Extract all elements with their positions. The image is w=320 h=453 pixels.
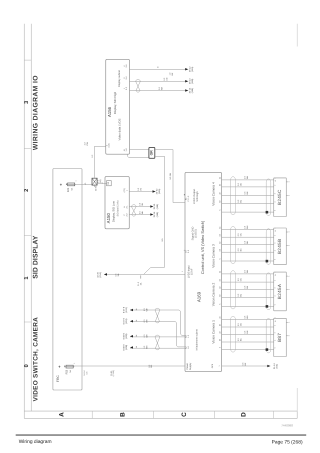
wire label	[137, 187, 142, 191]
twisted pair cameras 1	[155, 308, 160, 323]
svg-text:A156: A156	[107, 106, 112, 117]
svg-text:(11B): (11B)	[156, 204, 159, 209]
pin stub A7	[184, 249, 185, 251]
svg-text:A5: A5	[218, 316, 221, 318]
pin stub2 B87	[286, 335, 288, 337]
wire tick	[135, 346, 137, 348]
label 8:68-8	[123, 332, 129, 339]
svg-text:FRC: FRC	[56, 375, 60, 383]
svg-text:1: 1	[287, 181, 290, 182]
svg-text:A8: A8	[218, 192, 221, 194]
wire A169 to B245A pin1	[222, 273, 274, 275]
frame right border bottom segment	[296, 388, 298, 411]
svg-text:1: 1	[287, 232, 290, 233]
svg-text:Vision Camera 3: Vision Camera 3	[211, 244, 215, 268]
svg-text:A150: A150	[106, 213, 111, 224]
svg-text:C1 1-2: C1 1-2	[187, 195, 190, 202]
wire label 0.5 GN	[163, 77, 168, 81]
shield ground square B245B	[266, 260, 269, 263]
wire A169 to B245B pin1	[222, 229, 274, 231]
wire A150 pinC to arrow	[129, 214, 153, 216]
wire camera L3	[130, 336, 185, 338]
svg-text:WH: WH	[246, 269, 249, 273]
wire A150 pin1 to arrow	[129, 191, 155, 193]
wire A169 to B245C pin2	[222, 186, 274, 188]
svg-text:A: A	[58, 412, 65, 417]
box A169	[185, 172, 222, 371]
svg-text:A8: A8	[218, 286, 221, 288]
pin stub B245A	[286, 275, 288, 277]
wire label 0.5 RD	[148, 364, 153, 368]
svg-text:Control unit, VS (Video Switch: Control unit, VS (Video Switch)	[200, 220, 205, 274]
wire A169 to B245B pin2	[222, 236, 274, 238]
pin label infotainment2	[185, 345, 190, 349]
wire A169 to B245A pin2	[222, 281, 274, 283]
wire A156 pin41 to OR	[130, 148, 149, 150]
svg-text:30-80: 30-80	[95, 185, 98, 191]
wire labels B245C	[244, 175, 249, 179]
svg-text:2: 2	[287, 245, 290, 246]
logic box OR	[149, 147, 155, 158]
connector box 52 in A150	[107, 181, 112, 186]
wire F53 to A169	[74, 365, 185, 367]
wire tick	[135, 320, 137, 322]
svg-text:WIRING DIAGRAM IO: WIRING DIAGRAM IO	[33, 75, 40, 150]
wire tick	[135, 309, 137, 311]
wire camera L1	[130, 310, 185, 336]
svg-text:32-20: 32-20	[97, 271, 100, 277]
label at connector	[97, 179, 102, 183]
svg-text:0.5 GN: 0.5 GN	[169, 173, 172, 180]
wire label below	[169, 72, 174, 76]
svg-text:B245B: B245B	[277, 239, 282, 255]
svg-text:VO: VO	[139, 188, 142, 191]
pin label 4 (C2)	[105, 143, 110, 147]
frame bottom outer line	[24, 417, 297, 419]
cable shield B245C	[231, 177, 236, 215]
svg-text:WH: WH	[246, 175, 249, 179]
svg-text:(LVDS): (LVDS)	[195, 229, 198, 237]
svg-text:35-14: 35-14	[189, 87, 192, 93]
wire label	[139, 210, 144, 214]
svg-text:Video data LVDS: Video data LVDS	[118, 118, 122, 140]
wire labels B87 3	[244, 330, 249, 334]
svg-text:(11B): (11B)	[156, 212, 159, 217]
svg-text:(G4): (G4)	[276, 364, 279, 369]
svg-text:35-13: 35-13	[189, 78, 192, 84]
wire A169 to B87 pin1	[222, 319, 274, 321]
svg-text:35-15: 35-15	[153, 203, 156, 209]
svg-text:PW: PW	[86, 142, 89, 145]
arrow to 31-12	[185, 68, 188, 71]
label 32-20	[97, 271, 103, 277]
wire A150 pinA to arrow	[129, 206, 153, 208]
wire label 0.5 BK	[242, 362, 247, 366]
svg-text:WH: WH	[246, 315, 249, 319]
label Signal GND	[192, 227, 198, 241]
wire A169 to B245A pin5	[222, 305, 274, 307]
wire connector up to A156	[95, 146, 106, 178]
wire A169 to B87 pin4	[222, 341, 274, 343]
svg-text:WH: WH	[146, 334, 149, 338]
shield ground square B87	[266, 348, 269, 351]
svg-text:Infotainment subnet: Infotainment subnet	[196, 329, 199, 350]
svg-text:(12A): (12A)	[125, 307, 128, 313]
label 35-13	[189, 78, 195, 84]
wire label	[110, 370, 115, 377]
wire A169 to B245C pin4	[222, 203, 274, 205]
pin stub2 B245B	[286, 245, 288, 247]
frame tick	[214, 411, 216, 418]
wire A169 to B245B pin5	[222, 260, 274, 262]
svg-text:Display, SID Low: Display, SID Low	[111, 200, 115, 222]
arrow camera wire 1	[130, 309, 133, 312]
wire A169 to B87 pin5	[222, 349, 274, 351]
svg-text:31-14: 31-14	[273, 363, 276, 369]
svg-text:1: 1	[181, 271, 184, 272]
pin stub B87	[286, 321, 288, 323]
frame tick	[24, 148, 31, 150]
cable shield 2 B245A	[266, 273, 271, 310]
wire A156 bottom pin to OR	[128, 154, 149, 157]
svg-text:WH: WH	[146, 345, 149, 349]
svg-text:30-52: 30-52	[155, 188, 158, 194]
shield ground square B245C	[266, 211, 269, 214]
svg-text:(12B): (12B)	[125, 345, 128, 351]
pin label C	[123, 213, 128, 217]
pin label 2	[123, 76, 128, 80]
wire A169 to B245A pin3	[222, 289, 274, 291]
frame bottom inner line	[24, 410, 297, 412]
svg-text:35-12: 35-12	[189, 66, 192, 72]
svg-text:2: 2	[287, 335, 290, 336]
wire labels B245A	[244, 269, 249, 273]
arrow to 35-13	[185, 80, 188, 83]
box A156	[106, 59, 130, 154]
label 31-12	[189, 66, 195, 72]
wire A169 to B245C pin1	[222, 179, 274, 181]
svg-text:B8: B8	[218, 294, 221, 296]
cable shield 2 B245B	[266, 229, 271, 265]
wire tick	[135, 335, 137, 337]
svg-text:A169: A169	[196, 291, 201, 302]
pin label A	[123, 205, 128, 209]
svg-text:Vision Camera 4: Vision Camera 4	[211, 182, 215, 206]
wire A156 pin1 to arrow	[130, 90, 189, 92]
svg-text:SID High: SID High	[196, 191, 199, 202]
pin tick	[184, 194, 185, 196]
wire connector to A150 C2	[97, 182, 106, 184]
svg-text:8:68-8: 8:68-8	[123, 332, 126, 339]
svg-text:Supply: Supply	[189, 362, 192, 370]
wire labels B245A 2	[237, 277, 242, 281]
svg-text:(11B): (11B)	[191, 78, 194, 83]
svg-text:(11A): (11A)	[191, 66, 194, 71]
svg-text:Page 75 (268): Page 75 (268)	[272, 439, 303, 445]
svg-text:B87: B87	[277, 333, 282, 342]
svg-text:Gnd: Gnd	[211, 363, 214, 368]
svg-text:B5: B5	[218, 324, 221, 326]
box B245B	[274, 228, 287, 265]
frame bottom right closure	[296, 411, 298, 418]
svg-text:1: 1	[74, 181, 77, 182]
frame tick	[153, 411, 155, 418]
twisted pair cameras 2	[155, 335, 160, 350]
wire labels B245B 3	[244, 240, 249, 244]
pin label A7	[185, 249, 190, 253]
pin stub2 B245A	[286, 289, 288, 291]
svg-text:7440998: 7440998	[281, 423, 293, 427]
wire labels B245A 3	[244, 285, 249, 289]
svg-text:B5: B5	[218, 234, 221, 236]
svg-text:8:67-8: 8:67-8	[123, 306, 126, 313]
svg-text:C: C	[181, 412, 188, 417]
wire off-page to A169 input	[104, 273, 185, 275]
label 8:68-9	[123, 344, 129, 351]
cable shield 2 B245C	[266, 179, 271, 216]
svg-text:B8: B8	[218, 339, 221, 341]
svg-text:A8: A8	[218, 331, 221, 333]
svg-text:1: 1	[24, 276, 30, 279]
cable shield B87	[231, 316, 236, 352]
wire A169 to B245B pin3	[222, 244, 274, 246]
junction tick	[140, 275, 142, 278]
wire A156 pin2 to arrow	[130, 80, 189, 82]
pin label 1	[123, 86, 128, 90]
svg-text:A8: A8	[218, 242, 221, 244]
svg-text:B5: B5	[218, 184, 221, 186]
wire F21 to connector	[75, 183, 92, 185]
wire camera L4	[130, 347, 185, 349]
svg-text:VIDEO SWITCH, CAMERA: VIDEO SWITCH, CAMERA	[33, 317, 40, 402]
svg-text:WH: WH	[146, 307, 149, 311]
arrow to 30-52	[153, 190, 156, 193]
svg-text:2: 2	[287, 195, 290, 196]
wire labels B245C 3	[244, 191, 249, 195]
svg-text:WH: WH	[246, 225, 249, 229]
wire label	[143, 334, 148, 338]
svg-text:B: B	[120, 412, 127, 417]
fuse box FRC	[53, 169, 82, 391]
pin stub B245B	[286, 231, 288, 233]
box B245C	[274, 178, 287, 217]
wire labels B245B 2	[237, 233, 242, 237]
wire labels B87	[244, 315, 249, 319]
box B245A	[274, 272, 287, 311]
wire A156 pin4 to arrow	[130, 68, 189, 70]
svg-text:35-16: 35-16	[153, 211, 156, 217]
label left of A156 pin	[83, 141, 88, 145]
wire label 0.5 SB	[115, 273, 120, 277]
label 8:67-8	[123, 306, 129, 313]
wire label	[139, 202, 144, 206]
wire label	[143, 319, 148, 323]
frame tick	[24, 235, 31, 237]
wire labels B245A 4	[237, 293, 242, 297]
arrow camera wire 3	[130, 335, 133, 338]
label 30-52	[155, 188, 161, 194]
wire A169 to B245C pin3	[222, 194, 274, 196]
svg-text:B8: B8	[218, 200, 221, 202]
twisted pair A150	[131, 205, 136, 216]
svg-text:Display subnet: Display subnet	[118, 70, 121, 87]
svg-text:Vision Camera 1: Vision Camera 1	[211, 320, 215, 344]
arrow to 35-15	[150, 205, 153, 208]
drawing frame left outer border	[23, 24, 25, 419]
svg-text:15 kF: 15 kF	[190, 268, 193, 275]
svg-text:Wiring diagram: Wiring diagram	[19, 439, 52, 445]
connector junction X	[92, 178, 97, 185]
wire label	[143, 307, 148, 311]
svg-text:B245A: B245A	[277, 283, 282, 299]
svg-text:8:67-9: 8:67-9	[123, 317, 126, 324]
svg-text:SID DISPLAY: SID DISPLAY	[33, 235, 40, 279]
wire OR out2 long vertical	[144, 156, 165, 274]
wire A169 to B245B pin4	[222, 251, 274, 253]
svg-text:0: 0	[24, 364, 30, 367]
svg-text:(12B): (12B)	[125, 333, 128, 339]
svg-text:SID low IC info: SID low IC info	[116, 200, 119, 216]
svg-text:(16A): (16A)	[158, 189, 161, 195]
svg-text:(C140): (C140)	[112, 370, 115, 376]
frame tick	[24, 321, 31, 323]
wire A169 to B245A pin4	[222, 297, 274, 299]
frame tick	[91, 411, 93, 418]
svg-text:A5: A5	[218, 177, 221, 179]
wire A169 to B87 pin3	[222, 334, 274, 336]
wire label 0.5 WH	[158, 86, 163, 90]
arrow camera wire 2	[130, 320, 133, 323]
svg-text:1: 1	[287, 276, 290, 277]
svg-text:Display, SID High: Display, SID High	[113, 91, 117, 114]
junction label 31-5	[137, 281, 142, 286]
pin label C5	[123, 188, 128, 192]
svg-text:OR: OR	[149, 150, 153, 156]
svg-text:1: 1	[218, 366, 221, 367]
svg-text:(11B): (11B)	[191, 88, 194, 93]
wire A169 to B87 pin2	[222, 326, 274, 328]
svg-text:(C2): (C2)	[108, 143, 111, 147]
fuse F21	[60, 181, 78, 193]
box B87	[274, 318, 287, 356]
fuse F53	[58, 363, 76, 375]
label G-M4	[273, 363, 279, 369]
svg-text:Vision Camera 2: Vision Camera 2	[211, 283, 215, 307]
footer rule	[16, 434, 307, 435]
label Power Supply	[186, 362, 192, 370]
label LVDS Output	[193, 189, 199, 204]
box A150	[105, 177, 129, 229]
cable shield 2 B87	[266, 319, 271, 353]
svg-text:B5: B5	[218, 279, 221, 281]
wire labels B245C 4	[237, 199, 242, 203]
svg-text:3: 3	[24, 101, 30, 104]
svg-text:F53: F53	[66, 369, 69, 374]
svg-text:(12A): (12A)	[125, 318, 128, 324]
svg-text:(21A): (21A)	[99, 272, 102, 278]
pin stub B245C	[286, 181, 288, 183]
svg-text:2: 2	[24, 189, 30, 192]
pin label infotainment	[185, 334, 190, 338]
frame tick	[272, 411, 274, 418]
frame tick	[24, 59, 31, 61]
svg-text:B245C: B245C	[277, 189, 282, 205]
wire labels B87 2	[237, 322, 242, 326]
arrow off-page left	[104, 273, 107, 276]
cable shield B245A	[231, 271, 236, 309]
svg-text:F21: F21	[67, 187, 70, 192]
wire OR out to A169 LVDS pin	[155, 150, 185, 203]
svg-text:WH: WH	[146, 319, 149, 323]
wire labels B87 4	[237, 337, 242, 341]
svg-text:WH: WH	[160, 86, 163, 90]
wire label	[143, 345, 148, 349]
pin label B1	[185, 195, 190, 202]
drawing frame left inner border	[30, 24, 32, 411]
arrow to 35-14	[185, 89, 188, 92]
arrow to 35-16	[150, 213, 153, 216]
svg-text:D: D	[240, 412, 247, 417]
svg-text:2: 2	[287, 289, 290, 290]
pin label 41	[123, 148, 128, 152]
wire label 16-14	[83, 370, 88, 376]
wire A169 Gnd to ground	[222, 365, 271, 367]
wire labels B245B 4	[237, 248, 242, 252]
shield ground square B245A	[266, 305, 269, 308]
label LVDS input	[187, 265, 193, 278]
arrow to ground G-M4	[267, 365, 270, 368]
label 35-16	[153, 211, 159, 217]
svg-text:WH: WH	[141, 210, 144, 214]
twisted pair A156	[136, 79, 141, 92]
label 35-15	[153, 203, 159, 209]
frame right border top segment	[296, 24, 298, 47]
label 8:67-9	[123, 317, 129, 324]
svg-text:B8: B8	[218, 249, 221, 251]
svg-text:1: 1	[287, 322, 290, 323]
connector bottom stub	[94, 185, 96, 187]
pin label 4	[123, 64, 128, 68]
wire camera L2	[130, 321, 185, 347]
svg-text:A5: A5	[218, 227, 221, 229]
svg-text:A5: A5	[218, 271, 221, 273]
cable shield B245B	[231, 227, 236, 264]
label 35-14	[189, 87, 195, 93]
svg-text:8:68-9: 8:68-9	[123, 344, 126, 351]
wire labels B245B	[244, 225, 249, 229]
arrow camera wire 4	[130, 346, 133, 349]
pin stub2 B245C	[286, 194, 288, 196]
wire labels B245C 2	[237, 182, 242, 186]
svg-text:1: 1	[73, 363, 76, 364]
wire A169 to B245C pin5	[222, 211, 274, 213]
